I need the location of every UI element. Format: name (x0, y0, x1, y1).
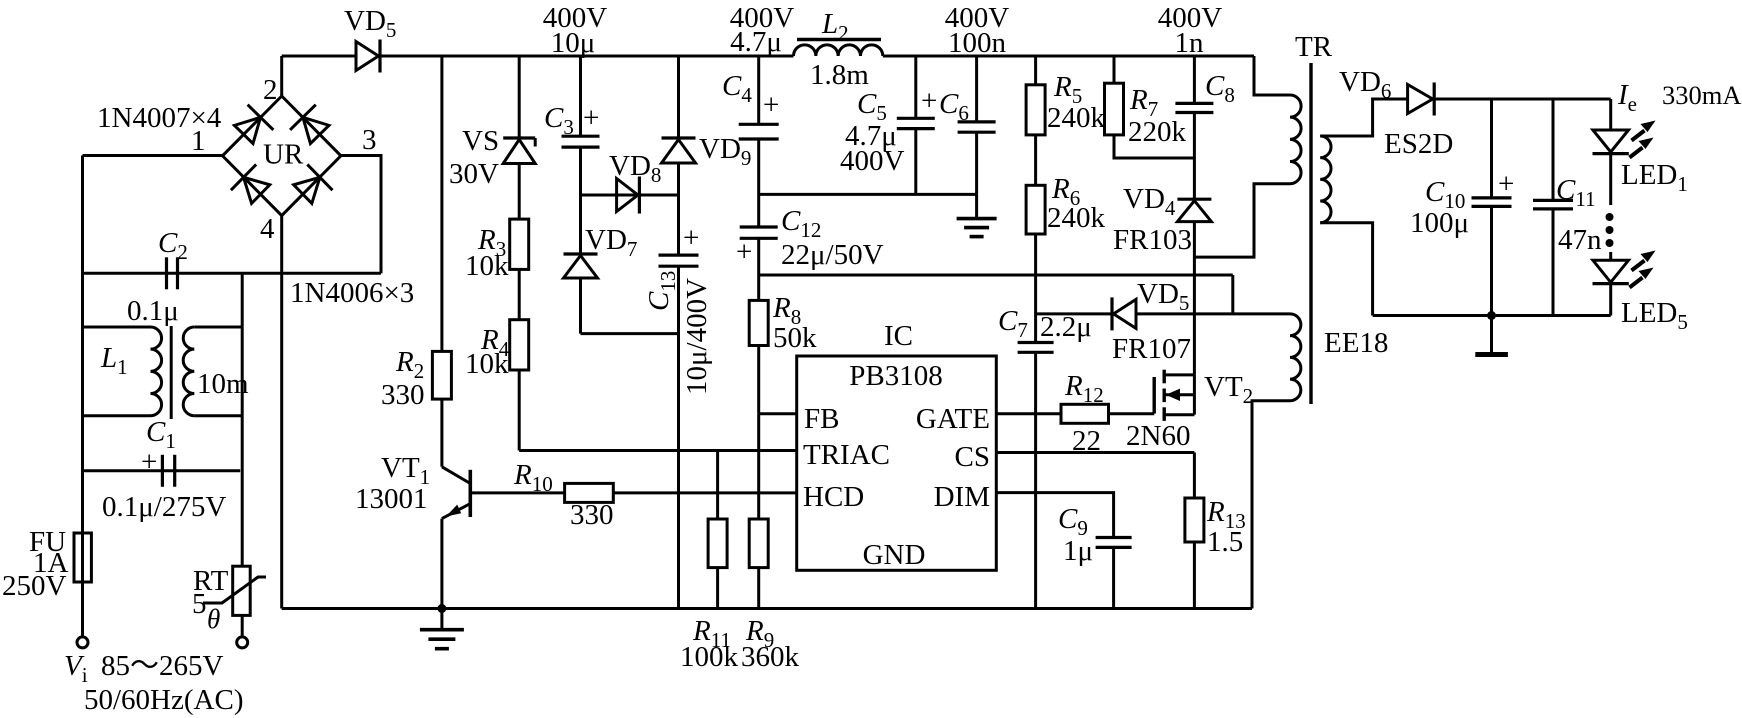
resistor R3 10k (465, 219, 529, 282)
svg-text:+: + (763, 89, 779, 121)
wire aux winding bottom jog (1252, 401, 1290, 609)
wire C10 bottom lead (1490, 206, 1493, 315)
diode VD4 FR103 (1113, 183, 1211, 256)
capacitor C9 1u (1058, 503, 1132, 567)
op-amp IC PB3108 controller (797, 356, 997, 571)
wire R10 to HCD pin (613, 491, 796, 494)
capacitor C5 4.7u 400V (840, 85, 937, 177)
capacitor C11 47n (1533, 174, 1602, 256)
wire C7 to ground rail (1034, 352, 1037, 608)
wire L1 bottom-right rung (194, 414, 242, 417)
wire L1 top-left rung (83, 326, 151, 329)
wire thermistor lead to input terminal (241, 615, 244, 637)
wire fuse lead to input terminal (81, 582, 84, 637)
wire filter line y194 (759, 193, 977, 196)
resistor R8 50k (749, 292, 817, 354)
svg-text:10k: 10k (465, 250, 509, 282)
svg-text:250V: 250V (2, 570, 67, 602)
svg-text:22μ/50V: 22μ/50V (781, 239, 884, 271)
svg-text:2.2μ: 2.2μ (1040, 311, 1092, 343)
capacitor C1 0.1u/275V (102, 416, 226, 523)
svg-text:4: 4 (260, 213, 275, 245)
wire L1 bottom-left rung (83, 414, 151, 417)
wire HCD base line (470, 491, 564, 494)
svg-text:3: 3 (362, 124, 377, 156)
svg-text:0.1μ/275V: 0.1μ/275V (102, 491, 226, 523)
svg-text:UR: UR (263, 139, 304, 171)
svg-text:EE18: EE18 (1324, 327, 1388, 359)
capacitor C7 2.2u (998, 305, 1092, 352)
wire corner drop to aux line (1231, 275, 1234, 314)
capacitor C12 22u/50V (736, 205, 884, 271)
wire bridge node 1 to left column (83, 154, 223, 157)
svg-text:400V: 400V (840, 145, 905, 177)
wire C10 top lead (1490, 99, 1493, 198)
svg-text:TR: TR (1295, 31, 1333, 63)
wire left AC column (81, 156, 84, 534)
junction dot output ground (1487, 311, 1496, 320)
svg-text:FR107: FR107 (1112, 333, 1191, 365)
svg-text:10k: 10k (465, 348, 509, 380)
wire aux line (1036, 312, 1112, 315)
transformer TR secondary winding (1320, 136, 1331, 223)
wire L1 top-right rung (194, 326, 242, 329)
svg-text:1n: 1n (1175, 27, 1205, 59)
wire primary bottom jog (1194, 184, 1290, 257)
wire GATE pin line (996, 412, 1061, 415)
svg-text:1μ: 1μ (1063, 535, 1093, 567)
wire R13 to ground rail (1193, 542, 1196, 609)
diode VD5 (344, 5, 396, 73)
wire R7 bottom jog (1114, 135, 1194, 158)
wire dots to LED5 (1609, 252, 1612, 260)
wire top rail left of VD5 (282, 55, 357, 58)
svg-text:+: + (683, 222, 699, 254)
resistor R10 330 (513, 459, 614, 531)
svg-text:DIM: DIM (934, 481, 990, 513)
resistor R9 360k (741, 519, 800, 673)
svg-text:IC: IC (884, 320, 913, 352)
svg-text:220k: 220k (1128, 116, 1187, 148)
svg-text:TRIAC: TRIAC (803, 439, 890, 471)
svg-text:330mA: 330mA (1662, 80, 1742, 110)
svg-text:1N4006×3: 1N4006×3 (290, 277, 414, 309)
wire R13 lead top (1193, 453, 1196, 499)
svg-text:50/60Hz(AC): 50/60Hz(AC) (84, 684, 243, 716)
wire C4 to C12 (757, 139, 760, 227)
wire right AC column upper (241, 273, 244, 566)
wire R7 branch from rail (1113, 56, 1116, 83)
input terminal left (77, 637, 88, 648)
resistor R5 240k (1026, 71, 1105, 135)
transformer TR aux winding (1290, 314, 1301, 401)
wire FB pin line (759, 412, 797, 415)
svg-text:10μ/400V: 10μ/400V (681, 278, 713, 395)
svg-text:FB: FB (804, 403, 839, 435)
wire DIM pin line (996, 493, 1113, 538)
wire VCC line C12 to corner (759, 274, 1233, 277)
zener diode VS 30V (449, 125, 535, 190)
wire bottom ground rail (282, 607, 1252, 610)
wire LED5 bottom lead (1609, 284, 1612, 316)
wire R2 to VT1 collector (440, 399, 443, 467)
svg-text:θ: θ (207, 604, 220, 634)
inductor L2 1.8m (794, 8, 883, 91)
bridge diode 4-1 (231, 164, 273, 207)
svg-text:4.7μ: 4.7μ (730, 26, 782, 58)
diode VD9 (662, 133, 752, 170)
wire C4 branch from rail (757, 56, 760, 124)
svg-text:10μ: 10μ (551, 27, 596, 59)
resistor R7 220k (1105, 83, 1187, 148)
wire C3 to VD7 (579, 147, 582, 254)
inductor L1 10m common-mode choke (100, 326, 249, 419)
svg-text:+: + (141, 446, 157, 478)
wire rail end to primary top (1254, 56, 1290, 95)
diode VD8 (609, 150, 661, 214)
svg-text:5: 5 (192, 588, 207, 620)
svg-text:100n: 100n (948, 27, 1007, 59)
wire R2 branch from top rail (440, 56, 443, 351)
capacitor C3 (544, 102, 600, 147)
wire VS to R3 (518, 164, 521, 220)
bridge diode 3-2 (290, 105, 333, 147)
wire VD6 to LED line (1434, 98, 1611, 101)
wire R5 to R6 (1034, 135, 1037, 185)
diode VD7 (564, 224, 638, 278)
label Ie output current (1617, 79, 1742, 116)
wire VD9 branch from rail (677, 56, 680, 138)
diode VD5 FR107 (1112, 278, 1191, 365)
ground symbol main (420, 609, 464, 649)
wire R9 lead from FB corner (757, 414, 760, 519)
wire VD4 to drain column (1193, 222, 1196, 375)
input terminal right (237, 637, 248, 648)
wire bottom jog C13 (581, 332, 679, 335)
svg-text:50k: 50k (773, 322, 817, 354)
svg-text:360k: 360k (741, 641, 800, 673)
bridge diode 1-2 (231, 105, 274, 147)
wire bridge node 4 down to bottom rail (280, 216, 283, 609)
svg-text:PB3108: PB3108 (849, 360, 942, 392)
svg-text:10m: 10m (197, 368, 249, 400)
bridge diode 4-3 (290, 164, 332, 207)
wire LED1 to dots (1609, 154, 1612, 205)
wire TRIAC line to IC (519, 449, 797, 452)
fuse FU 1A 250V (2, 526, 91, 602)
wire secondary top lead (1320, 99, 1407, 136)
wire bridge node 3 to right drop (341, 156, 381, 274)
resistor R13 1.5 (1185, 496, 1246, 558)
capacitor C8 1n (1175, 70, 1234, 113)
svg-text:1.8m: 1.8m (810, 59, 869, 91)
wire C8 branch from rail (1193, 56, 1196, 103)
bridge rectifier UR 1N4007x4 (223, 96, 341, 216)
wire R8 lead top (757, 275, 760, 300)
capacitor C2 0.1u (127, 227, 188, 327)
ground symbol output (1475, 316, 1508, 355)
wire C1 line (83, 469, 241, 472)
capacitor C13 10u/400V (643, 222, 713, 395)
wire C5 branch from rail (914, 56, 917, 118)
svg-text:22: 22 (1072, 425, 1101, 457)
wire C12 to VCC line (757, 238, 760, 275)
svg-text:1.5: 1.5 (1207, 526, 1243, 558)
wire R3 to R4 (518, 269, 521, 319)
resistor R6 240k (1026, 173, 1105, 234)
svg-text:2N60: 2N60 (1126, 420, 1190, 452)
svg-text:13001: 13001 (355, 483, 428, 515)
wire C6 bottom lead (975, 132, 978, 194)
wire C11 top lead (1552, 99, 1555, 200)
wire VD9 to C13 (677, 163, 680, 255)
svg-text:GATE: GATE (916, 403, 990, 435)
svg-text:240k: 240k (1047, 202, 1106, 234)
wire R11 to ground rail (716, 568, 719, 609)
svg-text:ES2D: ES2D (1384, 128, 1453, 160)
wire secondary bottom lead (1320, 223, 1372, 316)
wire C6 branch from rail (975, 56, 978, 122)
svg-text:2: 2 (263, 74, 278, 106)
capacitor C10 100u (1410, 168, 1514, 239)
resistor R11 100k (680, 519, 739, 673)
transistor VT2 2N60 MOSFET (1126, 370, 1253, 452)
wire C3 branch from rail (579, 56, 582, 136)
wire R12 to VT2 gate (1109, 412, 1155, 415)
wire aux line right of VD5 (1136, 312, 1290, 315)
ground symbol filter (957, 194, 997, 236)
LED LED5 (1593, 251, 1688, 335)
svg-text:+: + (583, 102, 599, 134)
wire R6 to C7 (1034, 234, 1037, 343)
wire CS pin line (996, 451, 1194, 454)
wire C5 bottom lead (914, 129, 917, 195)
wire C13 down to ground rail (677, 266, 680, 608)
svg-text:HCD: HCD (803, 481, 864, 513)
svg-text:240k: 240k (1047, 102, 1106, 134)
transistor VT1 13001 (355, 452, 470, 519)
svg-text:FR103: FR103 (1113, 224, 1192, 256)
resistor R12 22 (1061, 370, 1109, 457)
svg-text:0.1μ: 0.1μ (127, 295, 179, 327)
svg-text:+: + (921, 85, 937, 117)
wire R4 to TRIAC corner (518, 370, 521, 451)
svg-text:+: + (736, 236, 752, 268)
wire LED1 top lead (1609, 99, 1612, 130)
svg-text:85～265V: 85～265V (101, 650, 224, 682)
thermistor RT 5 (192, 565, 266, 634)
svg-text:30V: 30V (449, 158, 499, 190)
wire C9 to ground rail (1112, 547, 1115, 608)
wire VD7 to bottom jog (579, 278, 582, 334)
svg-text:47n: 47n (1558, 224, 1602, 256)
wire VD8 line (581, 194, 679, 197)
wire C8 to VD4 (1193, 113, 1196, 200)
capacitor C4 (722, 70, 779, 139)
wire top rail VD5 to L2 (381, 55, 794, 58)
svg-text:VS: VS (462, 125, 499, 157)
diode VD6 ES2D (1339, 66, 1453, 160)
svg-text:100μ: 100μ (1410, 207, 1469, 239)
wire R8 to FB corner (757, 346, 760, 414)
resistor R4 10k (465, 320, 529, 380)
svg-text:CS: CS (955, 441, 990, 473)
svg-text:GND: GND (863, 539, 926, 571)
ellipsis dots LED string (1606, 213, 1614, 221)
LED LED1 (1593, 121, 1688, 197)
svg-text:100k: 100k (680, 641, 739, 673)
wire bridge node 2 up to rail (280, 56, 283, 96)
wire R9 to ground rail (757, 568, 760, 609)
resistor R2 330 (381, 346, 451, 411)
transformer TR primary winding (1290, 95, 1301, 184)
wire top rail L2 to end (883, 55, 1254, 58)
svg-text:330: 330 (570, 499, 614, 531)
wire output bottom rail (1373, 314, 1611, 317)
svg-text:+: + (1498, 168, 1514, 200)
wire VT1 emitter to ground rail (440, 519, 443, 609)
wire R5 branch from rail (1034, 56, 1037, 85)
wire C11 bottom lead (1552, 209, 1555, 316)
wire C2 line (83, 272, 382, 275)
wire R11 lead from TRIAC line (716, 451, 719, 520)
svg-text:330: 330 (381, 379, 425, 411)
wire VS branch from rail (518, 56, 521, 138)
capacitor C6 (939, 88, 996, 132)
svg-text:1: 1 (191, 125, 206, 157)
junction dot VT1 emitter ground (437, 604, 446, 613)
transformer TR core (1309, 63, 1312, 404)
